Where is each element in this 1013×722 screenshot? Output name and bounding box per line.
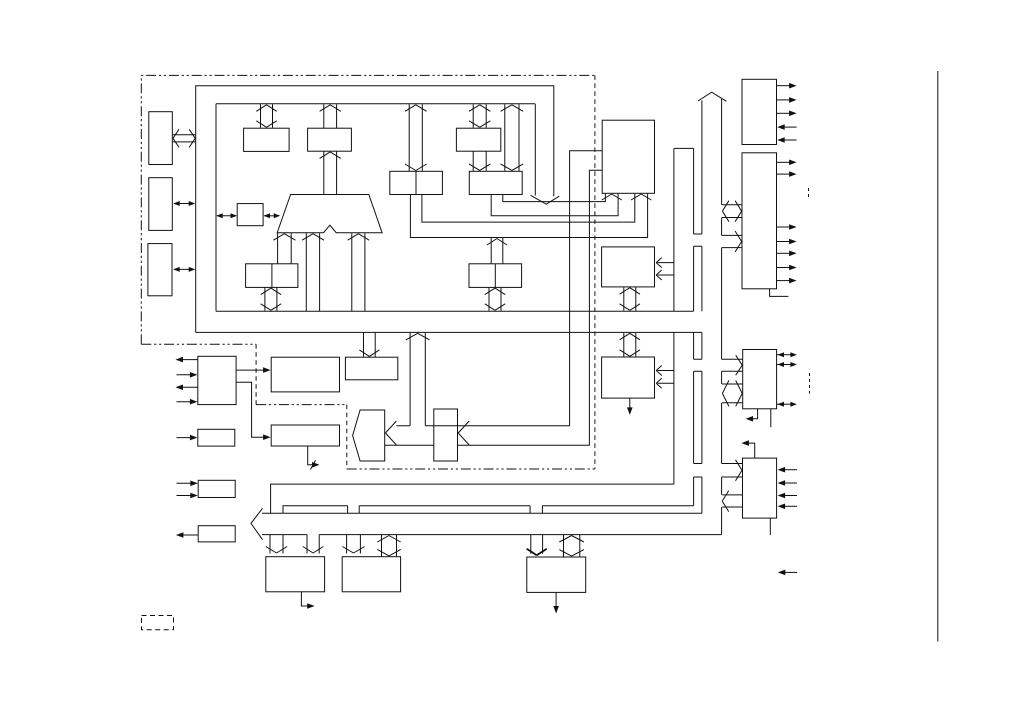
main bus left arrowhead (251, 508, 263, 539)
P4 pin in 4 (778, 504, 797, 510)
P2 pin out 6 (777, 265, 797, 271)
fetch channel upper wall (396, 151, 602, 426)
T2 connector from main bus (377, 535, 400, 556)
ALU trapezoid (277, 195, 382, 233)
register block A2 (308, 128, 352, 151)
channel A' branch stub T2 (348, 506, 360, 514)
dash-dot boundary of single-chip region (top and left) (141, 75, 595, 344)
port block P4 (743, 458, 777, 518)
dashed boundary step verticals (256, 344, 347, 469)
bidirectional arrow L2 (173, 201, 195, 206)
P2 pin out 3 (777, 224, 797, 230)
connector B2 to top bus (469, 104, 490, 128)
standby box L6 (198, 480, 235, 497)
channel A' lower wall (283, 506, 694, 514)
register block A (244, 128, 290, 151)
P3 pin bidir 3 (777, 402, 797, 407)
timer box T2 (342, 557, 400, 592)
CPU outer frame (top bus outer wall) (196, 86, 554, 333)
RAM block (602, 247, 655, 287)
CPU inner frame (216, 104, 535, 311)
P2 pin out 1 (777, 160, 797, 166)
arrow small box right (264, 213, 281, 218)
T1 right pair from main bus (303, 535, 324, 554)
wire B3 left pin to ROM (491, 194, 618, 216)
channel A left wall (673, 148, 675, 484)
osc to divider wire (236, 367, 271, 373)
subclock box (198, 429, 235, 446)
ALU input pair b from data bus (348, 233, 369, 311)
port box L1 (149, 112, 173, 165)
register block B3 (469, 171, 522, 194)
ROM block (602, 120, 654, 193)
osc to duty box wire (236, 382, 271, 440)
bidirectional arrow L3 (173, 267, 195, 272)
RAM connector to data bus (620, 287, 640, 311)
port block P1 (742, 79, 777, 144)
clock divider box (271, 357, 339, 392)
osc pin out 2 (176, 385, 198, 391)
P2 pin continuation dashes (808, 188, 810, 199)
bus controller connector (359, 333, 379, 357)
clock output stub with slash (308, 446, 320, 470)
arrow small box left (216, 213, 237, 218)
osc pin out 1 (176, 357, 198, 363)
duty adjust box (271, 425, 339, 446)
branch to external bus controller (406, 333, 430, 426)
timer box T1 (266, 557, 325, 592)
wire B3 right pin to ROM (503, 194, 606, 202)
P1 pin out 3 (777, 111, 797, 117)
WDT connector to bus (620, 333, 640, 357)
connector channel A to P4 (694, 460, 743, 481)
bus arrow pointing down (internal bus) (531, 195, 560, 204)
channel A tap to RAM lower (656, 270, 674, 280)
WDT output arrow (627, 398, 633, 415)
WDT block (602, 357, 655, 398)
P4 pin in 1 (778, 467, 797, 473)
channel A' upper wall (271, 484, 674, 513)
P1 pin in 1 (777, 124, 796, 130)
osc pin in 1 (177, 372, 198, 378)
connector C to data bus (261, 288, 281, 311)
ALU output bus to A2 (320, 151, 341, 194)
channel A top cap (674, 147, 694, 149)
CPU outer frame bottom wall (196, 331, 702, 333)
arrowhead into decoder (385, 421, 396, 445)
P2 pin out 4 (777, 239, 797, 245)
channel B left wall (701, 100, 703, 513)
osc pin in 2 (177, 399, 198, 405)
connector P4 to bus leftward (722, 491, 742, 512)
P4 top wire (741, 440, 754, 458)
CPU inner frame bottom wall (216, 310, 694, 312)
T2 left pair from channel A' (342, 535, 364, 554)
T3 output stub (553, 592, 559, 613)
channel B right wall (721, 99, 723, 535)
channel A right wall (693, 148, 695, 505)
instruction register (434, 409, 458, 461)
P2 pin out 7 (777, 278, 797, 284)
T1 left pair from channel A' (266, 535, 287, 554)
ALU input pair a from data bus (302, 233, 324, 311)
T3 left pair from channel A' (527, 535, 547, 556)
main bus bottom edge (262, 534, 722, 536)
vertical rule at right edge (937, 71, 939, 642)
connector B2 to B3 (469, 151, 490, 171)
port block P3 (743, 350, 777, 409)
P4 pin in 2 (778, 480, 797, 486)
connector bus to P2 bidirectional (722, 201, 742, 222)
dashed boundary right edge (594, 75, 596, 469)
P3 pin continuation dashes (809, 373, 811, 394)
channel A tap to WDT upper (656, 366, 674, 376)
T3 connector from main bus (559, 535, 584, 557)
P3 pin bidir 1 (777, 352, 797, 357)
P4 pin in 3 (778, 493, 797, 499)
ALU input pair to C register (273, 233, 295, 263)
instruction decoder pentagon (353, 410, 385, 461)
P2 pin out 2 (777, 171, 797, 177)
connector B1 to top bus (405, 104, 427, 171)
channel A tap to RAM upper (656, 258, 674, 268)
register pair block M (469, 264, 522, 288)
P1 pin out 2 (777, 97, 797, 103)
L6 input arrow 2 (177, 493, 198, 499)
channel B up arrowhead (698, 92, 726, 101)
oscillator box (198, 356, 236, 404)
main bus top edge (262, 512, 702, 514)
ROM input arrowhead 2 (631, 194, 651, 200)
P2 pin out 5 (777, 251, 797, 257)
wire B1 left pin to ROM (410, 194, 647, 238)
L7 output arrow (176, 532, 198, 538)
subclock input arrow (177, 435, 198, 441)
port block P2 (742, 153, 777, 289)
fetch channel lower wall (385, 170, 602, 445)
T1 output stub (301, 592, 314, 609)
dashed legend box (142, 616, 174, 630)
port box L3 (148, 244, 172, 296)
connector M to internal wire (487, 238, 507, 264)
connector A2 to top bus (320, 104, 341, 128)
connector channel A to P3 (694, 355, 743, 375)
connector B3 to top bus (501, 104, 524, 171)
bus controller box (345, 357, 397, 380)
ROM input arrowhead 1 (602, 194, 622, 200)
P3 pin bidir 2 (777, 362, 797, 367)
connector bus to P3 bidirectional (722, 380, 742, 406)
connector M to data bus (485, 288, 505, 311)
dash-dot boundary staircase bottom (141, 344, 595, 469)
P2 ground stub (770, 289, 789, 297)
fat bidirectional bus arrow L1 (173, 129, 196, 147)
wire B1 right pin to ROM (422, 194, 635, 222)
interrupt small box (237, 204, 263, 226)
reset box L7 (198, 526, 235, 542)
connector channel A to P2 (694, 231, 742, 252)
timer box T3 (527, 557, 586, 592)
P1 pin out 1 (777, 83, 797, 89)
register pair block C (246, 264, 298, 288)
channel A' branch stub T3 (530, 506, 542, 514)
L6 input arrow 1 (177, 481, 198, 487)
connector A to top bus (256, 104, 276, 128)
P3 dangling stub (770, 409, 772, 427)
lone input arrow (778, 570, 797, 576)
register block B2 (456, 128, 500, 151)
register pair block B1 (390, 171, 443, 194)
arrowhead into instruction register (458, 421, 469, 445)
channel A tap to WDT lower (656, 378, 674, 388)
P3 output stub left (746, 409, 758, 422)
port box L2 (149, 178, 173, 231)
P4 bottom stub (769, 518, 771, 535)
P1 pin in 2 (777, 137, 796, 143)
